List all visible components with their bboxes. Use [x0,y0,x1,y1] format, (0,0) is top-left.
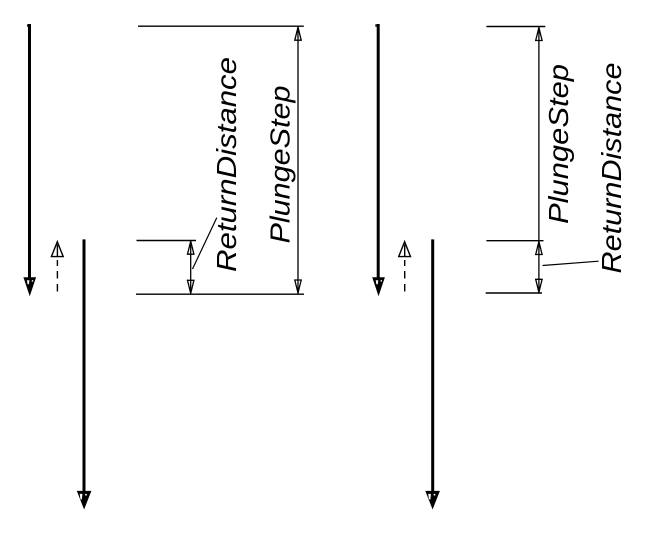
plunge arrow 1 shaft (right) [377,24,380,288]
shared dimension line (right) [538,27,540,294]
PlungeStep dim arrow down (left) [294,280,302,293]
ReturnDistance dim arrow down (left) [187,280,195,293]
bottom depth line (left) [136,293,304,295]
ReturnDistance dimension line (left) [190,241,192,295]
plunge arrow 1 head (left) [23,277,36,296]
surface line top (left) [138,25,304,27]
leader line to ReturnDistance text (left) [193,218,217,269]
surface line top (right) [486,26,545,28]
svg-text:ReturnDistance: ReturnDistance [596,63,627,274]
PlungeStep dim arrow up (left) [294,27,302,40]
retract dashed arrow head (left) [51,242,63,257]
svg-text:ReturnDistance: ReturnDistance [211,57,242,272]
dim arrow up at retract level (right) [535,242,543,255]
plunge arrow 1 start cap nub (right) [375,24,376,27]
PlungeStep dimension line (left) [297,26,299,294]
retract dashed arrow shaft (right) [404,245,406,292]
retract level line (left) [137,240,197,242]
retract dashed arrow shaft (left) [56,245,58,292]
svg-text:PlungeStep: PlungeStep [265,86,296,244]
plunge arrow 2 shaft (left) [83,239,86,500]
plunge arrow 1 start cap nub (left) [27,24,28,27]
dim arrow up at surface (right) [535,28,543,41]
bottom depth line (right) [486,292,542,294]
plunge arrow 2 head (left) [77,491,92,510]
leader line to ReturnDistance text (right) [543,261,599,265]
plunge arrow 2 shaft (right) [431,239,434,500]
svg-text:PlungeStep: PlungeStep [543,64,574,224]
retract dashed arrow head (right) [399,242,411,257]
retract level line (right) [486,240,543,242]
dim arrow down at bottom (right) [535,279,543,292]
plunge arrow 2 head (right) [425,491,440,510]
plunge arrow 1 shaft (left) [28,24,31,288]
plunge arrow 1 head (right) [372,277,385,296]
ReturnDistance dim arrow up (left) [187,241,195,254]
